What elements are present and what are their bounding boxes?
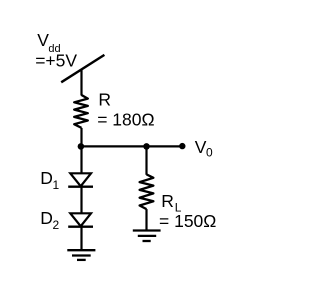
ground (left, below D2) [67, 250, 95, 260]
resistor R [74, 95, 88, 128]
svg-text:D: D [40, 208, 53, 228]
svg-text:=+5V: =+5V [35, 50, 77, 70]
svg-text:= 150Ω: = 150Ω [159, 211, 216, 231]
label D2 [40, 208, 59, 232]
label R = 180ohm [97, 89, 154, 129]
diode D1 [68, 173, 93, 186]
wire node A to output terminal [81, 145, 182, 147]
power Vdd supply slash [61, 55, 104, 82]
svg-text:2: 2 [53, 218, 60, 232]
svg-text:V: V [195, 137, 207, 157]
wire diode D1 to diode D2 [80, 187, 82, 214]
svg-text:= 180Ω: = 180Ω [97, 109, 154, 129]
diode D2 [68, 213, 93, 226]
svg-text:R: R [98, 89, 111, 109]
wire resistor R to node A [80, 128, 82, 147]
svg-text:R: R [161, 191, 174, 211]
net Vdd label "Vdd =+5V" [35, 30, 77, 70]
svg-text:D: D [40, 168, 53, 188]
label D1 [40, 168, 59, 192]
output terminal dot [179, 143, 185, 149]
wire Vdd slash to resistor R [80, 69, 82, 95]
svg-text:V: V [37, 30, 49, 50]
resistor RL [140, 174, 154, 209]
node B junction dot [143, 143, 150, 150]
label V0 output [195, 137, 213, 160]
ground (right, below RL) [133, 231, 161, 242]
wire resistor RL to ground [145, 209, 147, 230]
svg-text:1: 1 [53, 178, 60, 192]
wire node A to diode D1 [80, 146, 82, 173]
wire diode D2 to ground [80, 227, 82, 251]
node A junction dot [78, 143, 85, 150]
label RL = 150ohm [159, 191, 216, 231]
svg-text:0: 0 [206, 146, 213, 160]
wire node B to resistor RL [145, 146, 147, 174]
